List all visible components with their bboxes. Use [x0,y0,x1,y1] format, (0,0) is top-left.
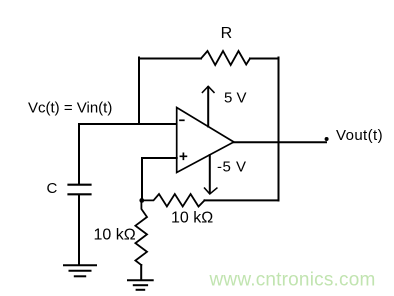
svg-text:10 kΩ: 10 kΩ [171,209,213,226]
svg-text:C: C [47,180,58,197]
ground GND2 [128,280,153,290]
node junction A [139,198,144,203]
wire Vin horizontal to inverting input [79,123,177,125]
svg-text:Vc(t) = Vin(t): Vc(t) = Vin(t) [28,100,112,117]
resistor R3 (10 k&#937; vertical) [135,200,147,265]
wire non-inverting corner vertical [141,158,143,200]
wire output [234,141,326,143]
node output terminal [325,137,329,141]
svg-text:-5 V: -5 V [217,158,247,175]
wire top-right horizontal (R right lead) [250,58,279,60]
wire bottom horizontal to right branch [205,199,279,201]
+5V supply arrow [202,86,214,126]
svg-text:10 kΩ: 10 kΩ [94,226,136,243]
wire capacitor top lead [78,124,80,184]
svg-text:Vout(t): Vout(t) [336,127,383,144]
resistor R2 (10 k&#937; horizontal) [142,194,205,207]
-5V supply arrow [205,155,217,194]
capacitor C1 [69,185,91,195]
svg-text:5 V: 5 V [224,90,247,107]
resistor R1 [201,51,250,65]
wire capacitor bottom lead [78,195,80,265]
op-amp U1 [177,108,234,173]
wire left feedback vertical [138,58,140,125]
wire top-left horizontal (R left lead) [139,58,201,60]
svg-text:R: R [221,25,233,42]
wire R3 to ground [140,265,142,279]
ground GND1 [64,265,96,276]
wire non-inverting input horizontal [142,157,177,159]
svg-text:www.cntronics.com: www.cntronics.com [209,270,376,291]
wire right vertical branch [278,58,280,201]
